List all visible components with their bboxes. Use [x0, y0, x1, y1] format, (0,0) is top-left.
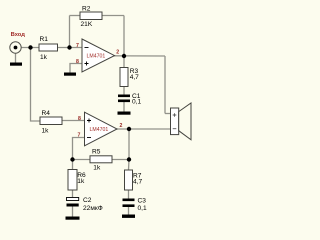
- resistor R4: [40, 117, 62, 125]
- ground under C2: [66, 217, 80, 220]
- svg-text:8: 8: [78, 116, 81, 122]
- svg-text:C2: C2: [83, 197, 92, 204]
- svg-text:Вход: Вход: [11, 32, 26, 38]
- resistor R6: [68, 170, 77, 191]
- resistor R3: [120, 68, 128, 87]
- svg-text:2: 2: [120, 123, 123, 129]
- ground under jack: [10, 63, 22, 66]
- wire R6 to C2: [72, 190, 74, 198]
- wire R7 to C3: [128, 190, 130, 199]
- wire output down right side: [164, 56, 166, 114]
- svg-text:1k: 1k: [42, 128, 50, 135]
- wire node to R5 left: [73, 159, 91, 161]
- wire R3 to C1: [123, 87, 125, 96]
- wire to speaker plus: [165, 113, 171, 115]
- svg-text:0,1: 0,1: [132, 99, 141, 106]
- resistor R5: [90, 156, 112, 163]
- wire U2 output down: [128, 129, 130, 160]
- capacitor C3: [123, 199, 135, 202]
- svg-text:R1: R1: [40, 36, 49, 43]
- svg-text:4,7: 4,7: [130, 74, 139, 81]
- svg-text:LM4701: LM4701: [90, 127, 109, 133]
- svg-text:R5: R5: [92, 148, 101, 155]
- ground U1 pin8: [64, 73, 76, 76]
- wire R2 down to output node: [123, 16, 125, 57]
- node dot input: [28, 45, 32, 49]
- node dot U2 output: [127, 127, 131, 131]
- wire R5 right to node: [112, 159, 129, 161]
- wire R1 to U1 pin7: [58, 47, 83, 49]
- svg-text:8: 8: [76, 59, 79, 65]
- wire C3 to ground: [128, 207, 130, 215]
- svg-text:21K: 21K: [81, 21, 93, 28]
- wire node to R6: [72, 160, 74, 170]
- ground under C1: [118, 112, 131, 115]
- svg-text:0,1: 0,1: [138, 205, 147, 212]
- wire node to R7: [128, 160, 131, 171]
- wire U2 output to speaker minus: [117, 128, 172, 130]
- wire jack to ground: [15, 53, 17, 62]
- svg-text:22мкФ: 22мкФ: [83, 205, 103, 212]
- svg-text:1k: 1k: [77, 178, 85, 185]
- node dot feedback: [67, 45, 71, 49]
- ground under C3: [122, 215, 135, 218]
- svg-text:R4: R4: [42, 110, 51, 117]
- speaker LS1: [171, 103, 192, 140]
- svg-text:C3: C3: [138, 198, 147, 205]
- resistor R7: [125, 170, 133, 190]
- wire node to R3: [123, 56, 125, 68]
- op-amp U1: [82, 39, 115, 72]
- node dot R5 right: [127, 157, 131, 161]
- node dot U1 output: [122, 54, 126, 58]
- wire U1 pin8 left: [70, 64, 82, 73]
- op-amp U2: [85, 112, 118, 146]
- resistor R2: [80, 12, 102, 20]
- connector J1 input jack: [10, 42, 21, 53]
- wire R2 right: [102, 15, 124, 17]
- svg-text:R2: R2: [82, 5, 91, 12]
- wire jack to R1: [21, 47, 39, 49]
- capacitor C2 electrolytic: [67, 198, 79, 201]
- wire feedback node up: [69, 16, 71, 49]
- svg-text:LM4701: LM4701: [87, 54, 106, 60]
- svg-text:7: 7: [76, 43, 79, 49]
- svg-text:7: 7: [78, 132, 81, 138]
- wire C1 to ground: [123, 101, 125, 112]
- resistor R1: [39, 44, 58, 51]
- svg-text:1k: 1k: [93, 164, 101, 171]
- wire C2 to ground: [72, 207, 74, 217]
- wire to R2 left: [70, 15, 81, 17]
- wire input node down to R4: [31, 48, 41, 122]
- wire R4 to U2 pin8: [62, 120, 85, 122]
- node dot R5 left: [70, 157, 74, 161]
- wire U1 output: [114, 55, 165, 57]
- svg-text:1k: 1k: [40, 54, 48, 61]
- svg-text:4,7: 4,7: [133, 178, 142, 185]
- capacitor C1: [118, 95, 130, 98]
- wire U2 pin7 loop: [73, 138, 85, 160]
- svg-text:2: 2: [116, 50, 119, 56]
